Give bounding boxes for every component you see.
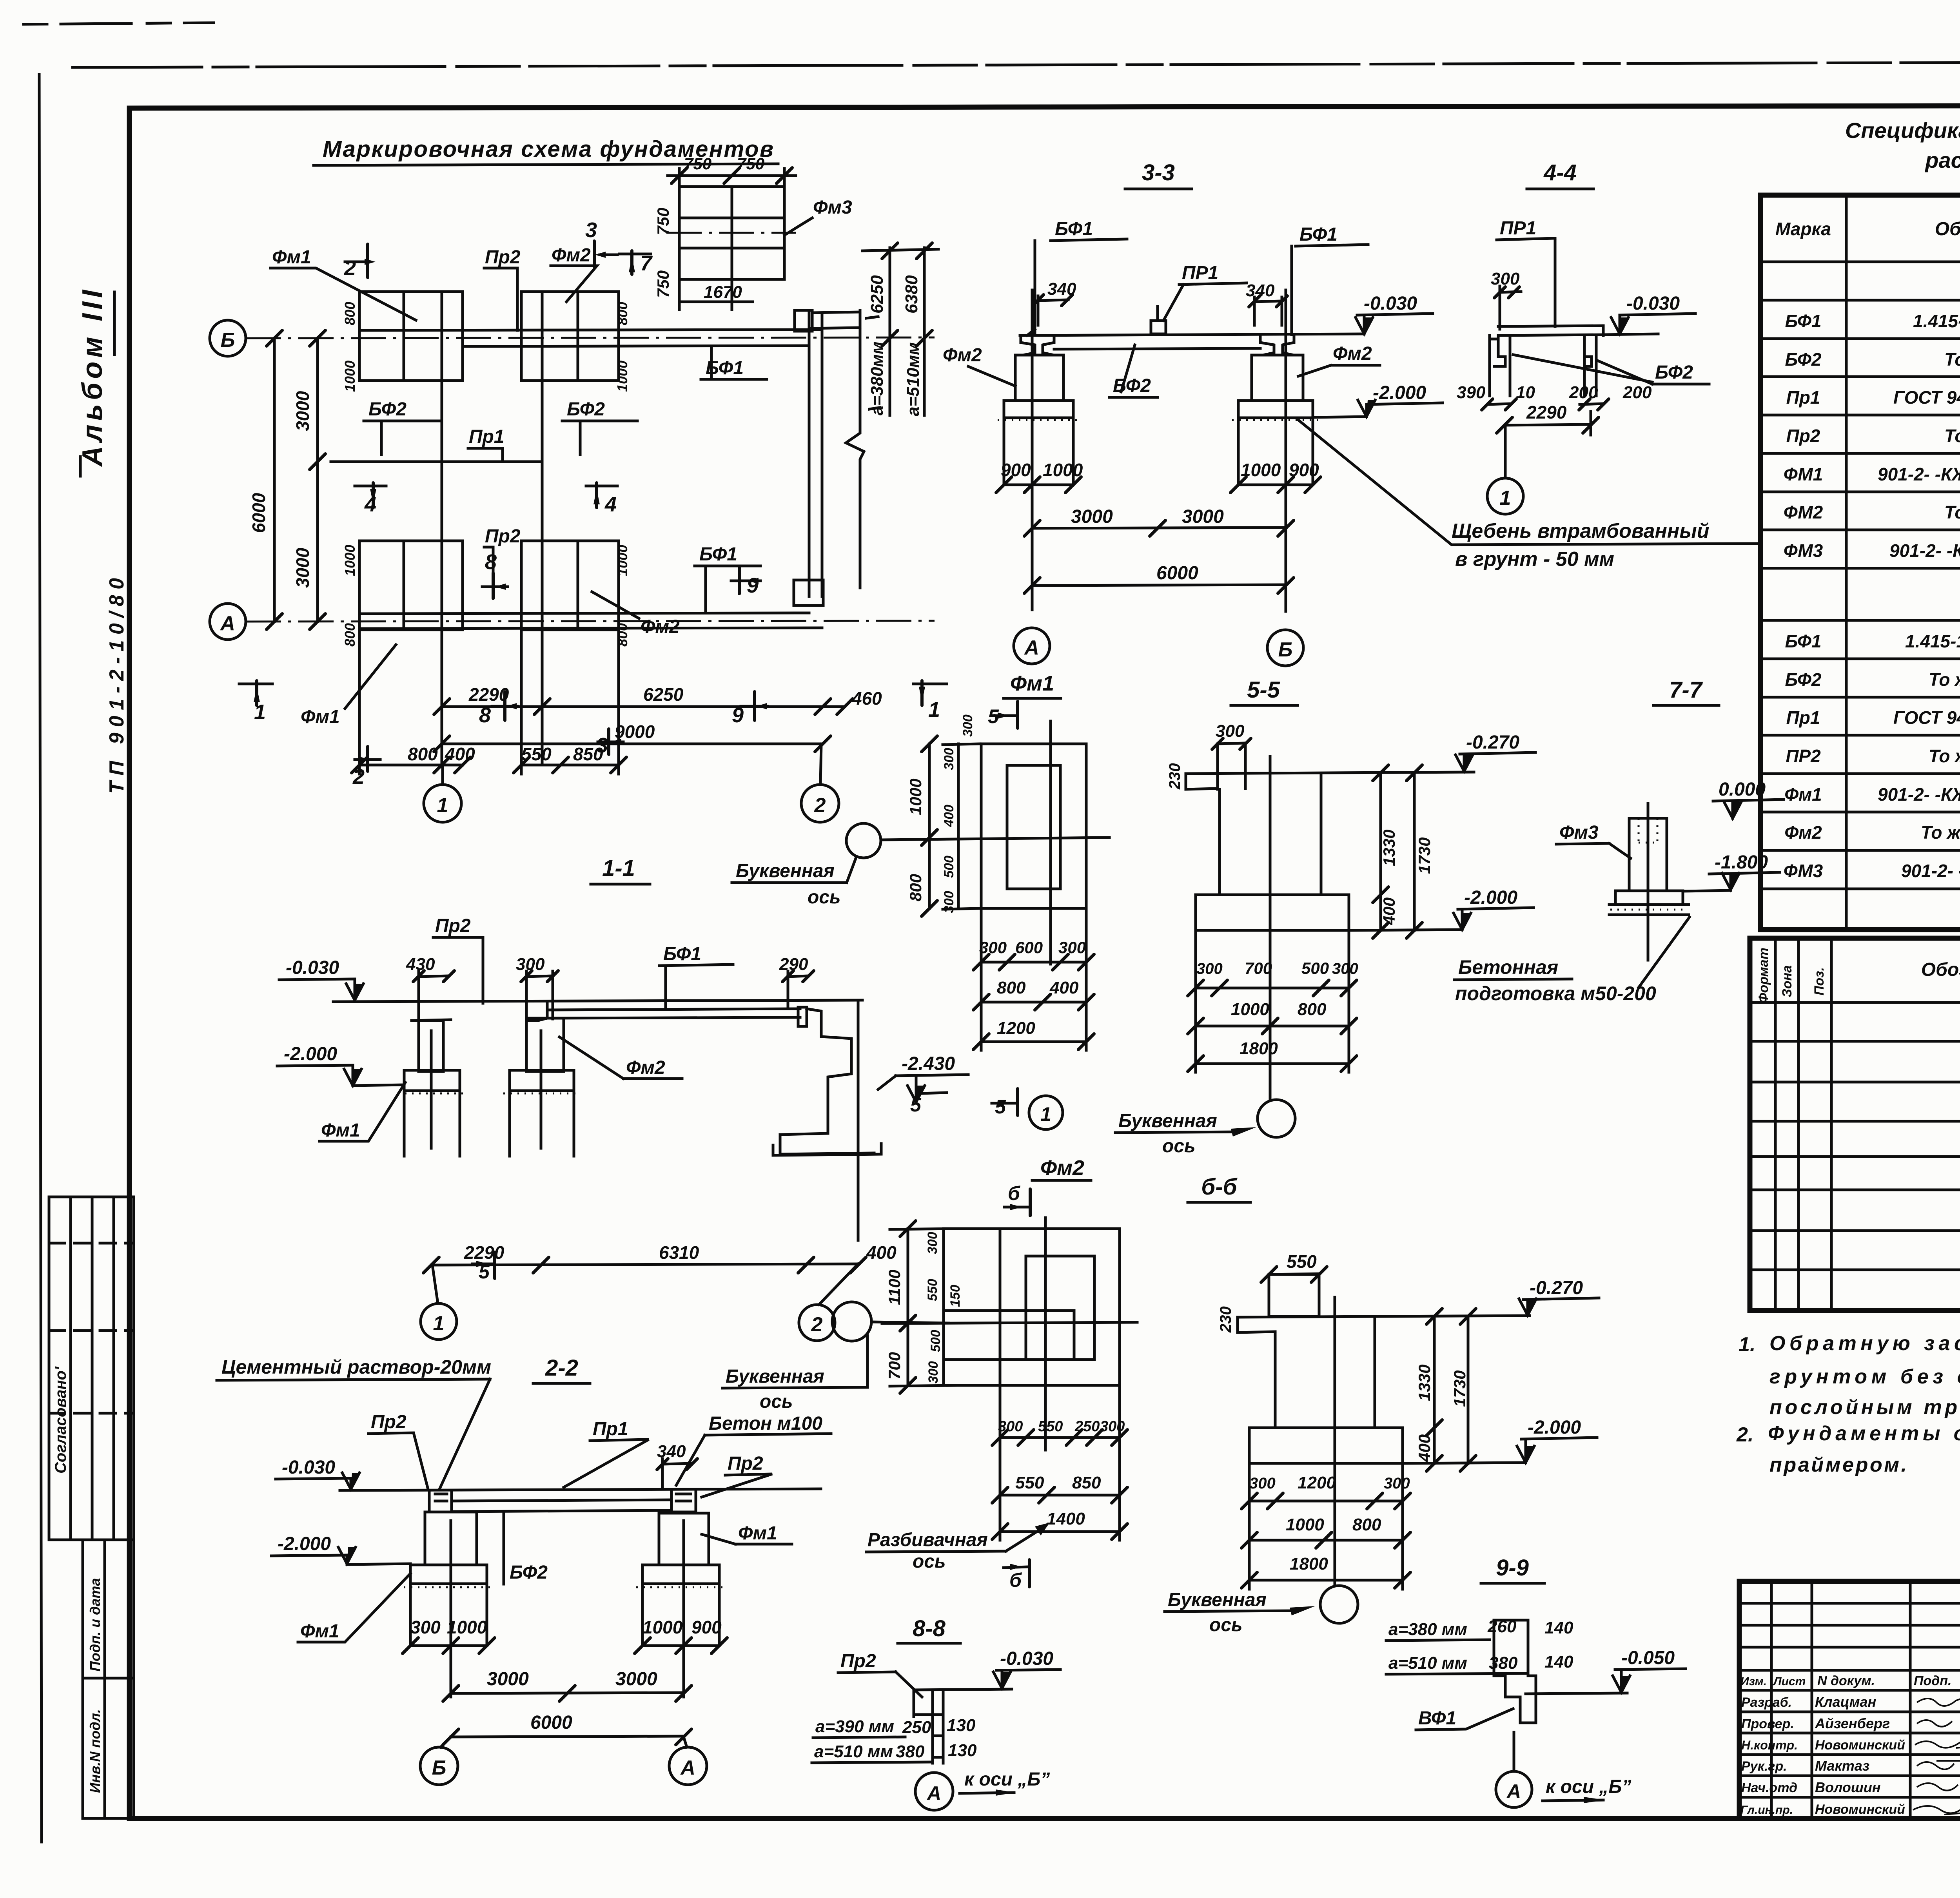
- section 8-8: [812, 1616, 1060, 1810]
- svg-text:Спецификация элементов к ма: Спецификация элементов к маркировочной с…: [1845, 118, 1960, 143]
- svg-text:ВФ1: ВФ1: [1418, 1708, 1456, 1729]
- svg-text:900: 900: [1001, 460, 1031, 480]
- svg-text:1.: 1.: [1739, 1333, 1755, 1356]
- svg-text:-0.030: -0.030: [1626, 293, 1680, 314]
- right channel: [1584, 335, 1596, 396]
- left margin approval boxes group 1: [49, 1197, 134, 1540]
- svg-text:Фм1: Фм1: [1784, 784, 1822, 805]
- svg-text:Фм1: Фм1: [301, 707, 340, 727]
- ground line: [1526, 1693, 1627, 1694]
- svg-text:Волошин: Волошин: [1815, 1779, 1881, 1795]
- svg-text:БФ1: БФ1: [663, 944, 701, 964]
- crosshair v: [1049, 721, 1052, 964]
- svg-text:Подп. и дата: Подп. и дата: [87, 1578, 103, 1671]
- svg-text:1000: 1000: [1286, 1515, 1324, 1534]
- svg-text:130: 130: [947, 1716, 976, 1735]
- svg-text:6310: 6310: [659, 1242, 699, 1263]
- svg-text:То же: То же: [1921, 822, 1960, 843]
- svg-text:6250: 6250: [867, 275, 887, 314]
- axis circle A: [684, 1737, 687, 1747]
- svg-text:400: 400: [1415, 1434, 1434, 1462]
- left margin boxes group 2: [83, 1540, 134, 1818]
- beam plan lines: [1498, 326, 1603, 326]
- signatures: [1917, 1698, 1960, 1706]
- right dims 1330/1730/400: [1379, 773, 1382, 930]
- svg-text:ФМ1: ФМ1: [1784, 464, 1823, 484]
- svg-text:к оси „Б”: к оси „Б”: [1546, 1777, 1631, 1797]
- inner vertical: [999, 1229, 1002, 1385]
- svg-text:1000: 1000: [614, 361, 630, 392]
- svg-text:4-4: 4-4: [1543, 160, 1577, 185]
- svg-text:1330: 1330: [1380, 830, 1398, 866]
- svg-text:901-2- -КЖ-16: 901-2- -КЖ-16: [1878, 464, 1960, 484]
- centre line to circle 1: [1504, 425, 1507, 478]
- svg-text:ПР2: ПР2: [1786, 746, 1821, 766]
- svg-text:550: 550: [925, 1279, 940, 1301]
- svg-text:1000: 1000: [1231, 1000, 1269, 1019]
- svg-text:Б: Б: [221, 329, 235, 352]
- svg-text:БФ1: БФ1: [699, 544, 737, 565]
- svg-text:б-б: б-б: [1201, 1174, 1238, 1200]
- svg-text:Инв.N подл.: Инв.N подл.: [87, 1709, 103, 1793]
- svg-text:Фм2: Фм2: [943, 345, 982, 366]
- dim line 9000: [442, 743, 823, 745]
- svg-text:-2.430: -2.430: [902, 1053, 955, 1074]
- svg-text:850: 850: [1072, 1473, 1101, 1492]
- svg-text:300: 300: [410, 1617, 441, 1637]
- svg-text:БФ2: БФ2: [1655, 362, 1693, 383]
- svg-text:1200: 1200: [1298, 1473, 1336, 1492]
- svg-text:1: 1: [437, 794, 448, 817]
- svg-text:То же: То же: [1944, 349, 1960, 370]
- svg-text:5: 5: [910, 1094, 922, 1116]
- axis circle 2: [799, 1305, 835, 1341]
- svg-text:800: 800: [342, 302, 358, 325]
- svg-text:300: 300: [1384, 1475, 1410, 1492]
- axis circle 1: [421, 1303, 457, 1340]
- svg-text:6000: 6000: [249, 493, 269, 533]
- svg-text:3000: 3000: [1182, 506, 1224, 527]
- second column Fm2: [526, 1018, 564, 1071]
- right bearing block: [671, 1490, 696, 1512]
- svg-text:Согласовано': Согласовано': [52, 1366, 69, 1474]
- outer rect: [944, 1229, 1120, 1385]
- table outline: [1750, 938, 1960, 1311]
- row lines block 1: [1760, 299, 1960, 302]
- blank circle: [1320, 1586, 1358, 1623]
- svg-text:1200: 1200: [997, 1019, 1035, 1038]
- svg-text:Фм2: Фм2: [1784, 822, 1822, 843]
- svg-text:900: 900: [691, 1617, 722, 1637]
- centre dash left: [430, 1031, 433, 1148]
- svg-text:а=510 мм: а=510 мм: [814, 1742, 893, 1761]
- svg-text:6380: 6380: [902, 275, 921, 314]
- svg-text:Фм1: Фм1: [300, 1621, 339, 1642]
- centre line: [1269, 756, 1272, 1100]
- column lines: [1774, 938, 1777, 1311]
- svg-text:Фм2: Фм2: [1040, 1156, 1084, 1180]
- dim 3000 3000: [451, 1693, 684, 1693]
- svg-text:Пр2: Пр2: [485, 247, 521, 268]
- svg-text:к оси „Б”: к оси „Б”: [964, 1769, 1050, 1790]
- svg-text:140: 140: [1544, 1652, 1573, 1671]
- svg-text:-2.000: -2.000: [284, 1044, 337, 1064]
- foundation rect R2: [521, 292, 619, 381]
- svg-text:Зона: Зона: [1780, 965, 1795, 997]
- axis circle A: [1014, 628, 1050, 664]
- svg-text:10: 10: [1516, 383, 1535, 402]
- svg-text:6000: 6000: [1156, 563, 1198, 584]
- axis circle B: [210, 320, 246, 356]
- svg-text:ПР1: ПР1: [1500, 218, 1536, 239]
- Pr1 block on beam: [1151, 321, 1166, 334]
- left footing: [410, 1565, 487, 1584]
- svg-text:ось: ось: [1209, 1615, 1243, 1635]
- svg-text:1400: 1400: [1047, 1509, 1085, 1528]
- svg-text:901-2- -КЖ-27: 901-2- -КЖ-27: [1889, 540, 1960, 561]
- svg-text:Цементный раствор-20мм: Цементный раствор-20мм: [221, 1356, 491, 1378]
- svg-text:2290: 2290: [1526, 402, 1567, 422]
- svg-text:3: 3: [585, 218, 597, 242]
- section 4-4: [1457, 160, 1709, 514]
- Fm3 detail on plan: [654, 154, 852, 310]
- beam BF1 profile: [547, 1009, 800, 1010]
- svg-text:N докум.: N докум.: [1817, 1673, 1875, 1688]
- svg-text:901-2- -КЖ-16: 901-2- -КЖ-16: [1878, 784, 1960, 805]
- svg-text:300: 300: [1249, 1475, 1276, 1492]
- step ledge: [1186, 743, 1245, 789]
- svg-text:Фм1: Фм1: [1010, 672, 1054, 695]
- svg-text:800: 800: [997, 978, 1026, 997]
- beam: [452, 1500, 671, 1501]
- svg-text:в грунт - 50 мм: в грунт - 50 мм: [1455, 548, 1614, 571]
- svg-text:подготовка м50-200: подготовка м50-200: [1455, 983, 1656, 1004]
- svg-text:Обозначение: Обозначение: [1921, 959, 1960, 980]
- svg-text:300: 300: [942, 748, 956, 770]
- left column Fm1: [419, 1021, 443, 1071]
- svg-text:1730: 1730: [1450, 1370, 1469, 1407]
- svg-text:800: 800: [906, 874, 925, 901]
- svg-text:Новоминский: Новоминский: [1815, 1802, 1905, 1817]
- svg-text:Новоминский: Новоминский: [1815, 1738, 1905, 1753]
- ground line: [1020, 334, 1362, 335]
- wall line A bottom: [359, 628, 822, 629]
- top-left stray dash: [24, 23, 214, 24]
- svg-text:-2.000: -2.000: [1373, 383, 1426, 403]
- ground line: [340, 1489, 821, 1490]
- svg-text:Фм1: Фм1: [738, 1523, 777, 1544]
- svg-text:Фм1: Фм1: [321, 1120, 360, 1141]
- svg-text:БФ1: БФ1: [1299, 224, 1338, 245]
- plan: marking scheme of foundations: [210, 136, 947, 822]
- svg-text:ГОСТ 948-76: ГОСТ 948-76: [1893, 387, 1960, 408]
- svg-text:Изм.: Изм.: [1740, 1675, 1767, 1688]
- beam section profile: [1494, 1620, 1536, 1723]
- wall line B top: [359, 330, 822, 330]
- svg-text:ФМ3: ФМ3: [1784, 861, 1823, 881]
- svg-text:300: 300: [1216, 721, 1245, 741]
- svg-text:750: 750: [684, 154, 711, 173]
- svg-text:300: 300: [1196, 960, 1223, 977]
- svg-text:Буквенная: Буквенная: [726, 1366, 824, 1387]
- svg-text:-0.030: -0.030: [282, 1457, 335, 1478]
- svg-text:Мактаз: Мактаз: [1815, 1758, 1869, 1774]
- svg-text:550: 550: [521, 744, 552, 764]
- svg-text:550: 550: [1287, 1251, 1317, 1272]
- svg-text:а=510мм: а=510мм: [904, 342, 923, 416]
- svg-text:200: 200: [1569, 383, 1598, 402]
- svg-text:Айзенберг: Айзенберг: [1815, 1715, 1890, 1731]
- svg-text:1.415-1 Вып.1: 1.415-1 Вып.1: [1905, 631, 1960, 651]
- svg-text:2290: 2290: [464, 1242, 505, 1263]
- foundation rect R1: [359, 292, 463, 381]
- dim 550/850 under R4: [521, 764, 619, 767]
- svg-text:То же: То же: [1929, 669, 1960, 690]
- svg-text:9: 9: [747, 574, 759, 597]
- svg-text:ПР1: ПР1: [1182, 263, 1218, 283]
- svg-text:Фм2: Фм2: [552, 245, 591, 266]
- dim 3000 3000: [1032, 528, 1286, 528]
- svg-text:Обратную засыпку котлован: Обратную засыпку котлована выполнить мес…: [1769, 1332, 1960, 1355]
- right pedestal: [1252, 355, 1303, 401]
- svg-text:-0.270: -0.270: [1530, 1278, 1583, 1298]
- svg-text:-2.000: -2.000: [1464, 887, 1517, 908]
- svg-text:Фм2: Фм2: [641, 616, 680, 637]
- wall line A top: [359, 613, 809, 614]
- wall line B bottom: [463, 346, 809, 346]
- top level line: [1238, 1316, 1530, 1317]
- svg-text:800: 800: [1298, 1000, 1327, 1019]
- svg-text:300: 300: [1100, 1418, 1125, 1435]
- svg-text:Н.контр.: Н.контр.: [1741, 1738, 1798, 1752]
- svg-text:То же: То же: [1944, 502, 1960, 522]
- svg-text:1000: 1000: [447, 1617, 487, 1637]
- column lines: [1845, 195, 1848, 930]
- svg-text:8-8: 8-8: [913, 1616, 946, 1641]
- svg-text:2: 2: [344, 256, 356, 280]
- svg-text:3000: 3000: [292, 547, 313, 588]
- svg-text:1000: 1000: [1043, 460, 1083, 480]
- vertical dim line 3000+3000: [316, 338, 319, 622]
- svg-text:То же: То же: [1929, 746, 1960, 766]
- left dim column 1000/800: [928, 744, 931, 908]
- inner rect: [1026, 1256, 1094, 1360]
- svg-text:5: 5: [995, 1096, 1006, 1118]
- notes: [1736, 1332, 1960, 1476]
- verticals: [1770, 1581, 1773, 1818]
- svg-text:ГОСТ 948-76: ГОСТ 948-76: [1893, 707, 1960, 728]
- svg-text:Формат: Формат: [1756, 948, 1771, 1003]
- upper cap rect: [1269, 1274, 1319, 1316]
- right dims 1330/1730/400: [1433, 1316, 1436, 1463]
- svg-text:600: 600: [1015, 938, 1043, 957]
- right wall verticals: [808, 313, 811, 596]
- crosshair h: [881, 838, 1109, 840]
- svg-text:300: 300: [979, 938, 1007, 957]
- svg-text:Рук.гр.: Рук.гр.: [1741, 1759, 1787, 1774]
- crushed stone leader: [1298, 419, 1758, 545]
- svg-text:400: 400: [1049, 978, 1079, 997]
- svg-text:500: 500: [942, 856, 956, 878]
- svg-text:300: 300: [960, 714, 975, 737]
- svg-text:А: А: [926, 1782, 941, 1804]
- svg-text:Разраб.: Разраб.: [1741, 1695, 1792, 1710]
- svg-text:1800: 1800: [1240, 1039, 1278, 1058]
- svg-text:1000: 1000: [642, 1617, 683, 1637]
- corner box axis A: [794, 580, 823, 605]
- centre line A: [1031, 290, 1034, 610]
- svg-text:2: 2: [814, 794, 826, 817]
- outer border left: [39, 74, 42, 1842]
- svg-text:2.: 2.: [1736, 1423, 1753, 1446]
- svg-text:Буквенная: Буквенная: [1168, 1590, 1267, 1610]
- svg-text:5-5: 5-5: [1247, 677, 1280, 703]
- svg-text:-2.000: -2.000: [1528, 1417, 1581, 1438]
- svg-text:ФМ3: ФМ3: [1784, 540, 1823, 561]
- left footing: [1004, 401, 1073, 418]
- axis circle 2: [820, 744, 821, 784]
- svg-text:а=510 мм: а=510 мм: [1388, 1653, 1467, 1673]
- dim line 2290/6310/400: [431, 1264, 858, 1265]
- svg-text:-0.030: -0.030: [1364, 293, 1417, 314]
- left small grid rows: [1739, 1602, 1960, 1605]
- axis line A: [246, 621, 935, 622]
- svg-text:390: 390: [1457, 383, 1486, 402]
- svg-text:Пр2: Пр2: [371, 1412, 407, 1432]
- svg-text:500: 500: [1301, 959, 1329, 977]
- svg-text:БФ1: БФ1: [1785, 631, 1822, 651]
- svg-text:Бетон м100: Бетон м100: [709, 1413, 822, 1434]
- svg-text:б: б: [1008, 1182, 1021, 1204]
- svg-text:БФ2: БФ2: [368, 399, 407, 420]
- svg-text:-0.030: -0.030: [1000, 1648, 1053, 1669]
- inner dim column 300/400/500/300: [957, 744, 960, 908]
- svg-text:-0.270: -0.270: [1466, 732, 1519, 753]
- svg-text:1: 1: [433, 1312, 445, 1335]
- svg-text:230: 230: [1217, 1306, 1234, 1333]
- svg-text:800: 800: [342, 623, 358, 647]
- right footing: [1238, 401, 1313, 418]
- svg-text:Пр1: Пр1: [593, 1419, 628, 1439]
- header bottom: [1750, 1001, 1960, 1004]
- svg-text:7-7: 7-7: [1669, 677, 1703, 703]
- svg-text:ось: ось: [1162, 1136, 1196, 1157]
- left footing: [404, 1070, 460, 1091]
- svg-text:200: 200: [1622, 383, 1652, 402]
- svg-text:1: 1: [928, 698, 940, 721]
- right wall profile: [780, 1009, 851, 1135]
- right offset wall with break: [846, 310, 864, 588]
- svg-text:500: 500: [928, 1330, 943, 1352]
- svg-text:а=380 мм: а=380 мм: [1388, 1620, 1467, 1639]
- svg-text:400: 400: [942, 805, 956, 827]
- svg-text:1000: 1000: [342, 361, 358, 392]
- svg-text:а=380мм: а=380мм: [867, 341, 887, 415]
- svg-text:300: 300: [1332, 960, 1358, 977]
- svg-text:1330: 1330: [1415, 1365, 1434, 1401]
- svg-text:1.415-1 Вып.1: 1.415-1 Вып.1: [1913, 311, 1960, 331]
- svg-text:3000: 3000: [1071, 506, 1113, 527]
- svg-text:Буквенная: Буквенная: [736, 861, 835, 881]
- svg-text:б: б: [1009, 1569, 1022, 1591]
- crosshair v: [1044, 1218, 1047, 1450]
- svg-text:250: 250: [902, 1718, 931, 1737]
- footing: [1615, 891, 1683, 905]
- svg-text:750: 750: [737, 154, 764, 173]
- svg-text:А: А: [680, 1757, 695, 1779]
- ground line: [914, 1689, 1012, 1690]
- svg-text:2-2: 2-2: [545, 1355, 578, 1381]
- section 1-1: [277, 823, 968, 1341]
- centre line B: [1285, 290, 1287, 611]
- right buried part: [1237, 418, 1240, 484]
- axis circle A: [915, 1773, 953, 1810]
- axis circle A: [1496, 1771, 1532, 1807]
- svg-text:а=390 мм: а=390 мм: [815, 1717, 894, 1736]
- svg-text:1: 1: [1500, 487, 1511, 509]
- section 3-3: [943, 160, 1758, 666]
- axis circle A: [210, 604, 246, 640]
- svg-text:1800: 1800: [1290, 1554, 1328, 1574]
- svg-text:9-9: 9-9: [1496, 1555, 1529, 1581]
- section 6-6: [1165, 1174, 1599, 1635]
- svg-text:2: 2: [811, 1313, 823, 1336]
- left bearing block: [429, 1490, 452, 1512]
- svg-text:ось: ось: [760, 1391, 793, 1412]
- svg-text:расположенной на листе: расположенной на листе: [1924, 148, 1960, 172]
- ground line: [333, 1000, 862, 1002]
- centre line: [1334, 1297, 1336, 1586]
- svg-text:Бетонная: Бетонная: [1458, 956, 1558, 978]
- svg-text:ось: ось: [913, 1551, 946, 1572]
- svg-text:Пр1: Пр1: [469, 426, 505, 447]
- svg-text:-2.000: -2.000: [278, 1534, 331, 1554]
- svg-text:1-1: 1-1: [602, 856, 635, 881]
- dim 6000: [1032, 585, 1286, 586]
- svg-text:Пр1: Пр1: [1786, 387, 1820, 408]
- corner box axis B: [795, 310, 812, 331]
- svg-text:800: 800: [1352, 1515, 1381, 1534]
- svg-text:1000: 1000: [342, 545, 358, 576]
- svg-text:850: 850: [573, 744, 603, 764]
- svg-text:Пр2: Пр2: [728, 1453, 763, 1474]
- svg-text:БФ1: БФ1: [1055, 219, 1093, 239]
- row lines: [1750, 1040, 1960, 1043]
- foundation rect R4: [521, 541, 619, 630]
- svg-text:300: 300: [998, 1418, 1023, 1435]
- section 9-9: [1386, 1555, 1686, 1807]
- svg-text:800: 800: [614, 623, 630, 647]
- beam section: [914, 1690, 943, 1763]
- concrete prep strip: [1609, 905, 1689, 915]
- svg-text:-0.030: -0.030: [286, 957, 339, 978]
- svg-text:6250: 6250: [643, 684, 684, 705]
- svg-text:140: 140: [1544, 1618, 1573, 1637]
- svg-text:130: 130: [948, 1741, 977, 1760]
- svg-text:Буквенная: Буквенная: [1118, 1111, 1217, 1131]
- table outline: [1760, 195, 1960, 930]
- wall top connector lines: [812, 312, 860, 313]
- svg-text:ось: ось: [808, 887, 841, 908]
- svg-text:Обозначение: Обозначение: [1935, 219, 1960, 239]
- svg-text:230: 230: [1166, 763, 1183, 790]
- svg-text:300: 300: [926, 1361, 941, 1383]
- svg-text:Щебень втрамбованный: Щебень втрамбованный: [1452, 520, 1710, 542]
- right tall dims 6250/6380: [889, 248, 891, 338]
- svg-text:901-2- -КЖ-27: 901-2- -КЖ-27: [1901, 861, 1960, 881]
- right rail shape BF1: [1260, 335, 1294, 355]
- svg-text:БФ2: БФ2: [1785, 349, 1822, 370]
